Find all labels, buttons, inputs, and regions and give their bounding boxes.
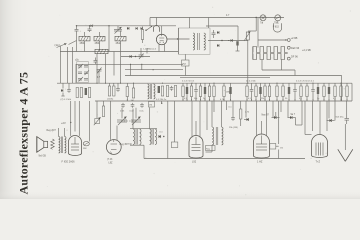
junction	[141, 64, 142, 65]
svg-text:0.1 2n 50 0.5: 0.1 2n 50 0.5	[182, 81, 195, 83]
wire	[278, 150, 280, 159]
junction	[213, 83, 214, 84]
tube V1 envelope	[153, 25, 159, 31]
wire	[255, 18, 257, 32]
svg-text:2n: 2n	[203, 98, 205, 100]
svg-text:2n: 2n	[317, 98, 319, 100]
wire	[178, 28, 180, 54]
wire	[130, 64, 132, 75]
switch S1	[145, 26, 152, 31]
diode D1	[127, 27, 129, 30]
junction	[153, 69, 154, 70]
wire	[208, 40, 248, 42]
capacitor C42	[140, 103, 145, 113]
wire	[108, 26, 110, 52]
coil L3	[115, 36, 126, 41]
wire	[277, 21, 279, 23]
svg-text:25k (1M): 25k (1M)	[229, 127, 238, 129]
wire	[76, 63, 183, 65]
capacitor C25	[204, 83, 206, 100]
IF can T1	[179, 28, 211, 54]
coil L1	[79, 36, 90, 41]
capacitor C39	[293, 83, 297, 100]
svg-text:(7 43: (7 43	[107, 159, 113, 161]
wire	[261, 60, 263, 71]
tube V4 DL96	[69, 136, 82, 156]
resistor R40	[102, 101, 104, 117]
svg-text:Nax 97: Nax 97	[262, 115, 270, 117]
wire	[287, 101, 289, 118]
resistor R5	[108, 86, 110, 96]
capacitor C21	[186, 83, 188, 100]
resistor R39	[346, 83, 348, 100]
tube V5 DK92	[106, 140, 121, 155]
heater chain row 1	[253, 47, 288, 53]
wire	[278, 101, 280, 144]
wire	[105, 54, 107, 83]
coil L4	[95, 49, 108, 53]
diode D8	[244, 118, 249, 121]
transformer T1 core	[198, 33, 200, 50]
junction	[247, 83, 248, 84]
resistor R42	[51, 139, 55, 149]
trimmer C50	[94, 117, 101, 125]
resistor R9	[166, 86, 168, 97]
terminal	[287, 46, 290, 49]
svg-text:25k: 25k	[261, 98, 264, 100]
capacitor C49	[345, 115, 350, 124]
junction	[105, 83, 106, 84]
wire	[328, 101, 330, 118]
wire	[121, 108, 123, 119]
capacitor C42	[311, 83, 315, 100]
svg-text:P 615: P 615	[273, 26, 280, 28]
wire	[191, 101, 193, 138]
svg-text:1,2x4MΩ x2,5: 1,2x4MΩ x2,5	[143, 49, 157, 51]
wire	[261, 121, 263, 135]
svg-text:Sx3 05a: Sx3 05a	[336, 116, 345, 118]
svg-text:0.1 2n 25 50 2n 0.1: 0.1 2n 25 50 2n 0.1	[296, 81, 315, 83]
junction	[96, 83, 97, 84]
trimmer block C7-C12	[77, 62, 89, 83]
transformer T2	[148, 84, 156, 99]
speaker LS	[37, 137, 48, 153]
junction	[276, 83, 277, 84]
junction	[285, 39, 286, 40]
junction	[191, 83, 192, 84]
capacitor C40	[120, 103, 125, 113]
resistor R26	[268, 83, 270, 100]
junction	[177, 38, 178, 39]
wire	[132, 109, 134, 129]
fuse F1	[275, 15, 281, 21]
resistor R11	[182, 83, 184, 100]
wire	[113, 83, 115, 86]
wire	[341, 76, 343, 102]
wire	[133, 83, 135, 88]
wire	[120, 31, 122, 37]
transformer T3 core	[61, 137, 62, 154]
capacitor C14	[94, 58, 98, 65]
wire	[245, 101, 247, 118]
junction	[120, 83, 121, 84]
capacitor C23	[194, 83, 198, 100]
junction	[312, 83, 313, 84]
wire	[71, 47, 73, 83]
wire	[301, 101, 303, 125]
wire	[248, 30, 256, 32]
transformer T5 primary	[212, 127, 223, 145]
bus wire	[125, 75, 342, 77]
coil L2	[94, 36, 105, 41]
wire	[346, 101, 348, 115]
junction	[130, 64, 131, 65]
tube V2 DK96	[156, 34, 167, 45]
wire	[150, 17, 284, 19]
wire	[211, 145, 213, 152]
variable capacitor C45	[131, 117, 141, 126]
component box	[206, 146, 216, 151]
svg-text:1 HZ: 1 HZ	[257, 161, 263, 164]
wire	[266, 101, 268, 136]
svg-text:70tL: 70tL	[274, 22, 279, 25]
svg-text:1M: 1M	[149, 105, 152, 107]
capacitor C16	[85, 88, 87, 95]
capacitor C29	[229, 83, 231, 100]
wire	[130, 144, 144, 146]
wire	[213, 101, 215, 112]
trimmer C3	[114, 26, 122, 34]
resistor R32	[306, 83, 308, 100]
capacitor C19	[170, 86, 174, 91]
resistor R18	[213, 83, 215, 100]
resistor R19	[223, 83, 225, 100]
capacitor C2	[88, 25, 92, 32]
wire	[344, 124, 346, 150]
terminal	[287, 39, 290, 42]
wire	[120, 41, 122, 83]
diode D3	[130, 55, 132, 58]
wire	[121, 56, 150, 58]
svg-text:Autoreflexsuper 4 A 75: Autoreflexsuper 4 A 75	[17, 72, 31, 195]
wire	[70, 101, 72, 136]
capacitor C45	[328, 83, 330, 100]
wire	[117, 83, 119, 87]
wire	[294, 70, 296, 76]
wire	[195, 121, 197, 136]
wire	[109, 83, 111, 86]
wire	[76, 35, 78, 52]
wire	[262, 69, 295, 71]
wire	[75, 64, 77, 83]
wire	[130, 128, 157, 130]
wire	[296, 124, 303, 126]
resistor R6b	[126, 83, 128, 100]
wire	[66, 47, 68, 83]
capacitor C1	[75, 25, 79, 34]
svg-text:+2,1 9B: +2,1 9B	[302, 49, 311, 52]
wire	[167, 101, 169, 159]
wire	[143, 145, 145, 158]
resistor P615	[274, 23, 282, 32]
wire	[226, 101, 228, 110]
wire	[304, 101, 306, 135]
resistor R3	[80, 88, 82, 98]
svg-text:Reg 20/7: Reg 20/7	[47, 130, 57, 132]
svg-text:0.1 25k 2n: 0.1 25k 2n	[156, 99, 167, 101]
capacitor C46	[83, 142, 89, 150]
resistor R44	[240, 101, 242, 126]
transformer T1 secondary	[204, 33, 206, 50]
wire	[174, 101, 176, 142]
wire	[237, 26, 239, 41]
antenna input arrow	[57, 43, 67, 47]
wire	[113, 52, 115, 76]
resistor R17	[208, 83, 210, 100]
wire	[295, 118, 297, 126]
svg-text:(7) 0.1 50k: (7) 0.1 50k	[61, 99, 72, 101]
wire	[257, 18, 259, 48]
resistor R25	[264, 83, 266, 100]
diode D0	[91, 25, 93, 28]
capacitor C43	[317, 83, 319, 100]
wire	[76, 25, 176, 27]
diode D4	[217, 31, 219, 47]
capacitor C33	[259, 83, 261, 100]
wire	[99, 32, 101, 36]
capacitor C17	[116, 87, 120, 92]
wire	[189, 18, 191, 29]
resistor R2	[76, 88, 78, 98]
wire	[275, 112, 277, 118]
wire	[272, 101, 274, 118]
wire	[158, 45, 160, 52]
pilot lamp LA1	[260, 15, 266, 21]
transformer T4 primary	[133, 129, 141, 145]
wire	[211, 101, 213, 127]
transformer T4 secondary	[150, 129, 157, 145]
svg-text:1MΩ: 1MΩ	[226, 92, 231, 94]
svg-text:7al: 7al	[260, 22, 264, 25]
resistor R4	[88, 88, 90, 98]
resistor R13	[190, 83, 192, 100]
wire	[146, 48, 148, 54]
svg-text:L92: L92	[192, 161, 197, 164]
svg-text:2n 0.1 50k: 2n 0.1 50k	[246, 81, 257, 83]
tube V6 DL96	[189, 136, 203, 159]
wire	[206, 25, 238, 27]
resistor R0	[141, 27, 143, 44]
wire	[60, 51, 178, 53]
node +2V	[61, 121, 71, 125]
wire	[206, 101, 208, 130]
svg-text:(100k): (100k)	[107, 99, 113, 101]
wire	[98, 72, 100, 84]
resistor R8	[161, 86, 163, 96]
resistor R21	[246, 83, 248, 100]
svg-text:9rd GB: 9rd GB	[39, 154, 47, 157]
wire	[258, 39, 286, 41]
paper speckle	[47, 7, 351, 196]
resistor R15	[199, 83, 201, 100]
wire	[221, 101, 223, 127]
wire	[305, 134, 312, 136]
svg-text:+2V: +2V	[61, 121, 66, 125]
wire	[252, 47, 254, 60]
wire	[161, 26, 163, 34]
wire	[110, 101, 112, 140]
wire	[156, 18, 158, 26]
trimmer C13	[97, 68, 102, 74]
wire	[351, 83, 353, 101]
resistor R7	[132, 88, 134, 98]
svg-text:1M: 1M	[131, 100, 134, 102]
wire	[99, 41, 101, 52]
wire	[58, 128, 60, 137]
diode D11	[327, 119, 335, 122]
resistor R35	[323, 83, 325, 100]
resistor R41	[149, 102, 155, 108]
resistor R31	[300, 83, 302, 100]
junction	[133, 83, 134, 84]
node +9V box	[182, 60, 190, 66]
wire	[167, 38, 190, 40]
wire	[74, 101, 76, 132]
bus wire	[57, 82, 352, 84]
capacitor C5c	[236, 41, 240, 51]
wire	[141, 64, 143, 69]
diode D9	[272, 116, 280, 119]
svg-text:+2.9B: +2.9B	[291, 36, 298, 40]
wire	[89, 101, 91, 142]
wire	[64, 128, 66, 137]
transformer T3 secondary	[65, 137, 67, 154]
diode D5b	[228, 39, 232, 42]
potentiometer P1	[244, 32, 250, 42]
wire	[319, 101, 321, 135]
resistor R38	[340, 83, 342, 100]
capacitor C31	[250, 83, 254, 100]
transformer T3 primary	[59, 137, 61, 154]
capacitor C47	[231, 101, 235, 121]
wire	[326, 101, 328, 131]
diode pair D2	[136, 27, 143, 30]
junction	[256, 17, 257, 18]
bus wire	[180, 76, 270, 78]
junction	[108, 25, 109, 26]
diode D6	[61, 83, 65, 96]
wire	[199, 101, 201, 138]
svg-text:F IGE 2A06: F IGE 2A06	[62, 160, 76, 163]
wire	[280, 101, 282, 112]
wire	[184, 54, 186, 60]
wire	[247, 40, 249, 83]
svg-text:T+Z: T+Z	[316, 161, 321, 164]
wire	[185, 66, 187, 76]
tube V7 DAF96	[254, 134, 270, 158]
car antenna symbol	[338, 149, 353, 161]
tube V8 DM71	[312, 135, 328, 158]
capacitor C41	[130, 103, 135, 113]
wire	[149, 108, 151, 129]
resistor R37	[334, 83, 336, 100]
svg-text:DF 96: DF 96	[291, 56, 298, 59]
diode D10	[288, 116, 296, 119]
trimmer C4	[139, 54, 144, 60]
junction	[221, 40, 222, 41]
svg-text:9a 7: 9a 7	[291, 114, 296, 116]
wire	[96, 54, 98, 83]
bus wire	[95, 100, 352, 102]
wire	[84, 41, 86, 52]
junction	[340, 83, 341, 84]
junction	[162, 83, 163, 84]
wire	[78, 101, 80, 136]
capacitor C38	[288, 83, 290, 100]
resistor R10	[174, 86, 176, 97]
wire	[281, 60, 283, 71]
resistor R28	[282, 83, 284, 100]
transformer T1 primary	[193, 33, 195, 50]
wire	[60, 46, 62, 83]
resistor R6	[113, 86, 115, 96]
capacitor C43	[161, 101, 162, 104]
resistor R23	[255, 83, 257, 100]
wire	[116, 126, 118, 141]
switch S0	[69, 41, 77, 45]
svg-text:L9Z: L9Z	[109, 163, 114, 165]
variable capacitor C44	[117, 117, 127, 126]
wire	[84, 32, 86, 36]
diode D7	[159, 135, 165, 138]
wire	[96, 101, 98, 119]
wire	[312, 101, 314, 131]
wire	[164, 44, 166, 52]
wire	[256, 101, 258, 136]
junction	[135, 56, 136, 57]
wire	[68, 83, 70, 88]
resistor R27	[276, 83, 278, 100]
wire	[135, 108, 137, 119]
capacitor C6	[212, 30, 216, 38]
svg-text:(1m): (1m)	[55, 43, 60, 47]
svg-text:RW: RW	[83, 148, 86, 150]
gang link	[121, 120, 137, 122]
wire	[334, 101, 336, 121]
resistor R43	[171, 142, 178, 148]
capacitor C15	[67, 88, 71, 93]
wire	[149, 18, 151, 26]
capacitor C18	[158, 86, 160, 93]
wire	[125, 69, 183, 71]
heater chain row 2	[253, 54, 288, 60]
svg-text:DaF 96: DaF 96	[291, 47, 300, 50]
wire	[208, 18, 210, 29]
wire	[140, 48, 142, 55]
capacitor C48	[270, 144, 284, 150]
terminal	[287, 57, 290, 60]
bus wire	[144, 158, 305, 160]
svg-text:50k: 50k	[194, 98, 197, 100]
